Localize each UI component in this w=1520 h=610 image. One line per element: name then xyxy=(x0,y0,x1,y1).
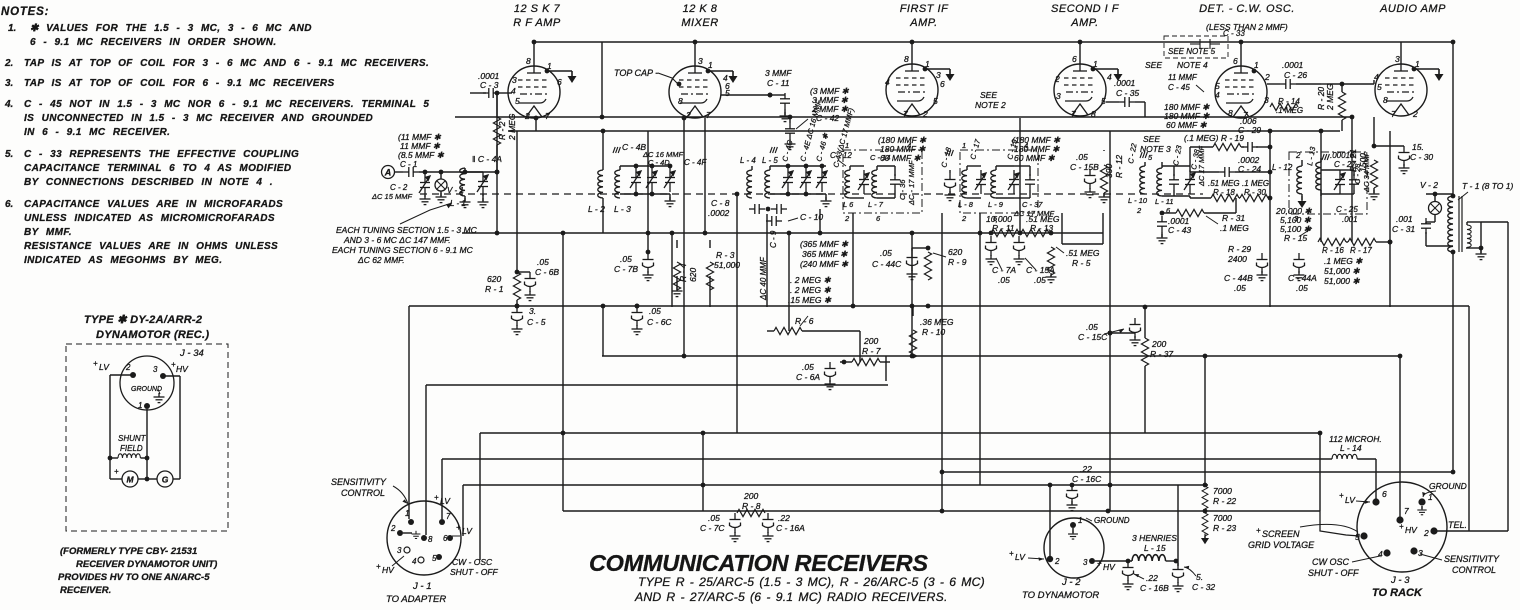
coil L-3 with trimmers C-4B C-4D C-4F xyxy=(614,164,676,214)
svg-text:51,000 ✱: 51,000 ✱ xyxy=(1324,276,1360,286)
svg-text:C - 15C: C - 15C xyxy=(1078,332,1108,342)
svg-text:(LESS THAN 2 MMF): (LESS THAN 2 MMF) xyxy=(1206,22,1288,32)
capacitor C-31 .001 xyxy=(1392,214,1453,246)
wire vertical x1205 J-2 column xyxy=(1204,356,1206,485)
capacitor C-38 variable xyxy=(1162,146,1206,196)
dynamotor enclosure dashed xyxy=(66,344,228,531)
svg-text:NOTE 4: NOTE 4 xyxy=(1177,60,1208,70)
capacitor C-8 .0002 xyxy=(708,198,765,218)
svg-text:M: M xyxy=(126,475,134,485)
capacitor C-42 symbol xyxy=(785,115,809,150)
value note C-42 block xyxy=(810,86,849,123)
wire vertical x705 mixer drop xyxy=(704,118,706,233)
capacitor C-44C .05 xyxy=(872,246,930,280)
svg-text:+: + xyxy=(1256,526,1261,535)
J-1 +LV labels xyxy=(434,493,473,536)
svg-text:L - 10: L - 10 xyxy=(1128,196,1148,205)
capacitor C-14 variable xyxy=(850,153,890,198)
svg-text:1: 1 xyxy=(962,141,966,150)
wire horizontal rail y385 xyxy=(426,384,888,386)
resistor R-8 200 xyxy=(737,491,765,517)
svg-text:8: 8 xyxy=(904,54,909,64)
svg-text:LV: LV xyxy=(462,526,473,536)
neon V-1 xyxy=(435,170,464,203)
pin 1 ground of tube at x=534 xyxy=(545,69,577,83)
capacitor C-1 xyxy=(400,160,497,177)
svg-text:C - 36: C - 36 xyxy=(898,179,907,200)
svg-text:4: 4 xyxy=(412,557,417,566)
wire vertical x1110 xyxy=(1109,131,1111,511)
capacitor C-30 15 xyxy=(1374,142,1433,174)
resistor R-10 .36MEG xyxy=(909,307,954,358)
svg-text:DYNAMOTOR (REC.): DYNAMOTOR (REC.) xyxy=(96,329,209,341)
svg-text:ΔC 17 MMF: ΔC 17 MMF xyxy=(1197,146,1206,187)
svg-text:.1 MEG: .1 MEG xyxy=(1220,223,1249,233)
wire vertical x1390 xyxy=(1389,131,1391,307)
stage title 12K8 MIXER xyxy=(681,3,718,29)
svg-text:200: 200 xyxy=(1151,339,1166,349)
svg-text:L - 15: L - 15 xyxy=(1144,543,1166,553)
resistor R-17 xyxy=(1346,238,1392,255)
svg-text:3: 3 xyxy=(1395,54,1400,64)
svg-text:.0002: .0002 xyxy=(708,208,730,218)
capacitor C-36 xyxy=(877,160,916,206)
svg-text:4: 4 xyxy=(1378,549,1383,559)
svg-text:5: 5 xyxy=(515,96,520,106)
svg-text:.36 MEG: .36 MEG xyxy=(920,317,954,327)
svg-text:RECEIVER.: RECEIVER. xyxy=(60,585,111,596)
pin 1 ground of tube at x=912 xyxy=(923,67,955,81)
svg-text:3: 3 xyxy=(1418,548,1423,558)
svg-text:SECOND I F: SECOND I F xyxy=(1051,3,1120,15)
svg-text:AND R - 27/ARC-5 (6 - 9.1 MC): AND R - 27/ARC-5 (6 - 9.1 MC) RADIO RECE… xyxy=(634,590,948,604)
svg-text:SEE: SEE xyxy=(980,90,997,100)
J-2 pin 2 +LV xyxy=(1009,549,1060,566)
capacitor C-6B .05 xyxy=(517,257,559,301)
capacitor C-11 3MMF xyxy=(721,68,792,122)
svg-text:3.: 3. xyxy=(5,78,13,89)
svg-text:.05: .05 xyxy=(880,248,892,258)
svg-text:J - 3: J - 3 xyxy=(1390,575,1410,586)
wire horizontal rail y485 xyxy=(463,484,1208,486)
wire vertical x426 to J-1 pin 8 xyxy=(425,385,427,535)
resistor R-7 200 xyxy=(840,336,890,366)
svg-text:C - 7A: C - 7A xyxy=(992,265,1016,275)
svg-text:ΔC 15 MMF: ΔC 15 MMF xyxy=(371,192,412,201)
resistor R-6 xyxy=(767,316,860,335)
wire RF grid row xyxy=(508,92,512,94)
svg-text:C - 3: C - 3 xyxy=(480,80,499,90)
pin 1 ground of tube at x=1080 xyxy=(1091,67,1123,81)
svg-text:6: 6 xyxy=(1382,489,1387,499)
svg-text:C - 12: C - 12 xyxy=(830,151,852,160)
svg-text:.05: .05 xyxy=(1296,283,1308,293)
resistor R-2 2 MEG xyxy=(493,93,517,235)
value note 20,000 bank xyxy=(1275,206,1312,243)
svg-text:2: 2 xyxy=(961,214,967,223)
capacitor C-6A .05 xyxy=(796,362,844,390)
svg-text:HV: HV xyxy=(176,364,189,374)
svg-text:TO ADAPTER: TO ADAPTER xyxy=(386,594,446,605)
wire vertical x563 long drop xyxy=(562,233,564,511)
svg-text:.51 MEG: .51 MEG xyxy=(1066,248,1100,258)
capacitor C-15C .05 xyxy=(1078,318,1141,346)
pin 1 ground of tube at x=695 xyxy=(706,69,738,83)
wire vertical x1400 J-3 +HV drop xyxy=(1399,356,1401,517)
svg-text:C - 37: C - 37 xyxy=(1022,200,1043,209)
svg-text:CONTROL: CONTROL xyxy=(1452,565,1496,575)
svg-text:(365 MMF ✱: (365 MMF ✱ xyxy=(800,239,849,249)
svg-text:365 MMF ✱: 365 MMF ✱ xyxy=(802,249,848,259)
generator G xyxy=(147,471,180,487)
svg-text:.05: .05 xyxy=(1034,275,1046,285)
svg-text:4: 4 xyxy=(1024,141,1028,150)
svg-text:1.: 1. xyxy=(8,23,16,34)
capacitor C-29 .006 xyxy=(1238,116,1261,135)
svg-text:LV: LV xyxy=(99,362,110,372)
wire horizontal rail y472 xyxy=(942,471,1453,473)
wire vertical x860 xyxy=(859,331,861,362)
svg-text:R - 29: R - 29 xyxy=(1228,244,1251,254)
resistor R-4 620 xyxy=(672,240,699,297)
svg-text:(.1 MEG) R - 19: (.1 MEG) R - 19 xyxy=(1184,133,1244,143)
svg-text:C - 4D: C - 4D xyxy=(648,158,670,167)
vacuum tube V-8 audio amplifier xyxy=(1374,54,1427,119)
coil L-6 xyxy=(843,166,854,209)
svg-text:L - 5: L - 5 xyxy=(762,156,778,165)
svg-text:1: 1 xyxy=(405,509,409,518)
svg-text:60 MMF ✱: 60 MMF ✱ xyxy=(880,153,921,163)
svg-text:TO RACK: TO RACK xyxy=(1372,587,1423,599)
svg-text:C - 11: C - 11 xyxy=(767,78,790,88)
svg-text:2: 2 xyxy=(125,363,131,372)
svg-text:SEE: SEE xyxy=(1143,134,1160,144)
svg-text:4: 4 xyxy=(1374,72,1379,82)
stage title AUDIO AMP xyxy=(1379,3,1446,15)
svg-text:3.: 3. xyxy=(529,306,536,316)
coil L-4 xyxy=(740,156,756,198)
svg-text:RESISTANCE VALUES ARE IN O: RESISTANCE VALUES ARE IN OHMS UNLESS xyxy=(24,241,278,252)
svg-text:R - 20: R - 20 xyxy=(1316,87,1326,110)
wire vertical x1178 C-32 column xyxy=(1177,485,1179,566)
svg-text:V - 2: V - 2 xyxy=(1420,180,1438,190)
coil L-5 xyxy=(762,156,778,198)
svg-text:620: 620 xyxy=(688,268,698,282)
svg-text:LV: LV xyxy=(440,496,451,506)
resistor R-13 .51MEG xyxy=(1018,214,1060,237)
svg-text:C - 33: C - 33 xyxy=(1223,29,1245,38)
value note 11 MMF / 8.5 MMF xyxy=(398,132,445,160)
J-34 pin 1 xyxy=(138,401,150,410)
capacitor C-16C .22 xyxy=(1067,464,1103,511)
svg-text:1: 1 xyxy=(1254,60,1259,70)
svg-text:GROUND: GROUND xyxy=(131,386,162,393)
svg-text:3 HENRIES: 3 HENRIES xyxy=(1132,533,1177,543)
capacitor C-26 .0001 xyxy=(1267,60,1321,89)
notes text xyxy=(4,23,429,266)
resistor R-29 2400 xyxy=(1227,244,1251,264)
svg-text:ΔC 40 MMF: ΔC 40 MMF xyxy=(759,256,768,301)
value note 180MMF bank det xyxy=(1164,102,1210,130)
svg-text:IN 6 - 9.1 MC RECEIVER.: IN 6 - 9.1 MC RECEIVER. xyxy=(24,127,170,138)
svg-text:R - 11: R - 11 xyxy=(992,223,1015,233)
svg-text:L - 11: L - 11 xyxy=(1155,197,1174,206)
wire vertical x536 RF cathode drop xyxy=(535,118,537,131)
svg-text:R - 14: R - 14 xyxy=(1278,97,1300,106)
wire top B+ rail xyxy=(534,42,1453,196)
svg-text:GROUND: GROUND xyxy=(1094,516,1130,525)
dynamotor wiring xyxy=(110,375,180,479)
svg-text:.05: .05 xyxy=(998,275,1010,285)
svg-text:HV: HV xyxy=(382,565,395,575)
resistor R-37 200 xyxy=(1141,306,1173,433)
svg-text:5: 5 xyxy=(1355,532,1360,542)
J-2 designation xyxy=(1022,577,1099,601)
svg-text:7000: 7000 xyxy=(1213,486,1232,496)
svg-text:6: 6 xyxy=(557,77,562,87)
stage title DET.-C.W. OSC. xyxy=(1199,3,1295,15)
label R-15 leader xyxy=(1300,228,1312,236)
wire dashed tuning-gang line xyxy=(420,193,1203,195)
svg-text:TEL.: TEL. xyxy=(1448,520,1467,530)
vacuum tube V-6 second IF amplifier xyxy=(1054,54,1112,119)
capacitor C-3 xyxy=(470,71,508,98)
svg-text:6 - 9.1 MC RECEIVERS IN ORD: 6 - 9.1 MC RECEIVERS IN ORDER SHOWN. xyxy=(30,37,277,48)
svg-text:60 MMF ✱: 60 MMF ✱ xyxy=(1166,120,1207,130)
vacuum tube V-4 12K8 mixer xyxy=(669,56,730,120)
svg-text:1500: 1500 xyxy=(1358,153,1368,172)
svg-text:C - 15B: C - 15B xyxy=(1070,162,1099,172)
resistor R-16 xyxy=(1318,238,1346,255)
svg-text:SCREEN: SCREEN xyxy=(1262,529,1300,539)
resistor R-5 .51 MEG xyxy=(1046,233,1100,283)
label C-4D xyxy=(642,150,683,167)
svg-text:C - 9: C - 9 xyxy=(769,230,778,248)
svg-text:R - 4: R - 4 xyxy=(678,263,688,282)
connector J-2 xyxy=(1044,518,1104,578)
svg-text:+: + xyxy=(456,523,461,532)
svg-text:+: + xyxy=(434,493,439,502)
svg-text:2: 2 xyxy=(1136,206,1142,215)
svg-text:390: 390 xyxy=(1104,164,1114,178)
wire vertical x1020 xyxy=(1019,118,1021,233)
svg-text:2 MEG: 2 MEG xyxy=(507,113,517,141)
wire vertical x410 to J-1 pin 1 xyxy=(408,306,410,519)
J-1 pin 5 xyxy=(432,554,442,563)
capacitor C-7B .05 xyxy=(614,250,654,281)
svg-text:R - 17: R - 17 xyxy=(1350,246,1372,255)
svg-text:51,000 ✱: 51,000 ✱ xyxy=(1324,266,1360,276)
svg-text:TYPE R - 25/ARC-5 (1.5 - 3 MC: TYPE R - 25/ARC-5 (1.5 - 3 MC), R - 26/A… xyxy=(638,575,985,589)
J-3 pin 2 TEL xyxy=(1423,520,1508,538)
svg-text:200: 200 xyxy=(863,336,878,346)
svg-text:PROVIDES HV TO ONE AN/ARC-: PROVIDES HV TO ONE AN/ARC-5 xyxy=(58,572,210,583)
svg-text:3: 3 xyxy=(1083,558,1088,567)
svg-text:1: 1 xyxy=(1078,516,1082,525)
svg-text:2400: 2400 xyxy=(1227,254,1247,264)
J-1 designation xyxy=(386,581,446,605)
capacitor C-18 xyxy=(939,146,955,201)
svg-text:4: 4 xyxy=(511,86,516,96)
svg-text:15.: 15. xyxy=(1412,142,1424,152)
svg-text:R - 18: R - 18 xyxy=(1213,188,1235,197)
resistor R-31 .1MEG xyxy=(1160,198,1250,233)
J-3 pin 1 ground xyxy=(1417,481,1466,515)
svg-text:TO DYNAMOTOR: TO DYNAMOTOR xyxy=(1022,590,1099,601)
svg-text:7: 7 xyxy=(1404,506,1409,516)
wire horizontal rail y117 (screen bus) xyxy=(455,116,1352,118)
svg-text:C - 35: C - 35 xyxy=(1116,88,1139,98)
svg-text:C - 32: C - 32 xyxy=(1192,582,1215,592)
svg-text:6: 6 xyxy=(443,534,448,543)
svg-text:‖ C - 4A: ‖ C - 4A xyxy=(472,154,502,164)
value note 365MMF bank xyxy=(800,239,849,269)
svg-text:L - 14: L - 14 xyxy=(1340,443,1362,453)
svg-text:2 MEG: 2 MEG xyxy=(1325,83,1335,111)
svg-text:C - 44A: C - 44A xyxy=(1288,273,1317,283)
svg-text:3: 3 xyxy=(512,75,517,85)
J-34 pin 3 +HV xyxy=(153,360,189,379)
resistor R-21 1500 xyxy=(1348,117,1380,200)
wire vertical x684 xyxy=(683,118,685,356)
svg-text:2: 2 xyxy=(1264,72,1270,82)
svg-text:EACH TUNING SECTION 1.5 - 3: EACH TUNING SECTION 1.5 - 3 MC xyxy=(336,225,478,235)
svg-text:3: 3 xyxy=(397,546,402,555)
resistor R-9 620 xyxy=(924,247,966,280)
svg-text:.22: .22 xyxy=(1080,464,1092,474)
svg-text:C - 43: C - 43 xyxy=(1168,225,1191,235)
capacitor C-25 .001 xyxy=(1336,194,1358,224)
J-3 pin 3 sensitivity xyxy=(1410,547,1500,575)
dynamotor title xyxy=(84,314,209,341)
svg-text:6: 6 xyxy=(1233,56,1238,66)
svg-text:4: 4 xyxy=(907,141,911,150)
capacitor C-19 variable xyxy=(996,138,1019,198)
wire vertical x1321 xyxy=(1320,131,1322,242)
capacitor C-7C .05 xyxy=(700,513,741,542)
resistor R-14 .1MEG xyxy=(1270,97,1303,115)
svg-text:C - 7B: C - 7B xyxy=(614,264,638,274)
wire vertical x789 xyxy=(788,233,790,331)
svg-text:. 2 MEG ✱: . 2 MEG ✱ xyxy=(790,275,832,285)
value note R-16 R-17 xyxy=(1324,256,1363,286)
svg-text:ΔC - 17 MMF: ΔC - 17 MMF xyxy=(907,160,916,206)
svg-text:.51 MEG: .51 MEG xyxy=(1208,179,1240,188)
wire vertical x1453 output rail xyxy=(1452,252,1454,472)
svg-text:C - 4F: C - 4F xyxy=(684,158,707,167)
wire horizontal rail y511 xyxy=(563,510,1320,512)
svg-text:C - 7C: C - 7C xyxy=(700,523,725,533)
svg-text:C - 45: C - 45 xyxy=(1168,83,1190,92)
svg-text:FIRST IF: FIRST IF xyxy=(900,3,949,15)
svg-text:J - 34: J - 34 xyxy=(179,348,204,359)
capacitor C-28 xyxy=(1340,152,1371,194)
wire horizontal rail y307 (B+ bus) xyxy=(409,305,1469,307)
svg-text:5: 5 xyxy=(432,554,437,563)
resistor R-3 51,000 xyxy=(706,240,740,307)
subtitle line 1 xyxy=(638,575,985,589)
svg-text:GROUND: GROUND xyxy=(1429,481,1467,491)
svg-text:2: 2 xyxy=(1423,528,1429,538)
svg-text:R - 21: R - 21 xyxy=(1348,149,1358,172)
capacitor C-24 .0002 xyxy=(1190,155,1270,177)
svg-text:5.: 5. xyxy=(5,149,13,160)
shunt field coil xyxy=(108,434,150,460)
wire vertical x737 xyxy=(736,194,738,433)
choke L-14 112 MICROH xyxy=(1318,431,1382,499)
svg-text:.15 MEG ✱: .15 MEG ✱ xyxy=(788,295,832,305)
J-1 pin 4 xyxy=(412,557,424,566)
svg-text:620: 620 xyxy=(948,247,962,257)
capacitor C-15A .05 xyxy=(1014,236,1056,285)
svg-text:.1 MEG ✱: .1 MEG ✱ xyxy=(1324,256,1363,266)
svg-text:R - 5: R - 5 xyxy=(1072,258,1091,268)
coil L-11 xyxy=(1155,162,1174,206)
svg-text:MIXER: MIXER xyxy=(681,17,718,29)
svg-text:5: 5 xyxy=(725,88,730,98)
slug tuning tick marks xyxy=(613,147,1329,160)
wire vertical x672 xyxy=(671,233,673,307)
svg-text:+: + xyxy=(1339,491,1344,500)
svg-text:12 S K 7: 12 S K 7 xyxy=(514,3,561,15)
svg-text:.05: .05 xyxy=(1076,152,1088,162)
wire vertical x603 screen drop xyxy=(602,306,604,356)
svg-text:12 K 8: 12 K 8 xyxy=(683,3,718,15)
IF transformer pin digits xyxy=(844,141,1299,223)
svg-text:2: 2 xyxy=(844,214,850,223)
J-1 +HV label xyxy=(376,556,404,575)
J-34 ground xyxy=(131,386,165,403)
svg-text:EACH TUNING SECTION 6 - 9.1: EACH TUNING SECTION 6 - 9.1 MC xyxy=(332,245,474,255)
svg-text:51,000: 51,000 xyxy=(714,260,740,270)
capacitor C-45 11MMF xyxy=(1168,73,1204,92)
capacitor C-33 dashed xyxy=(1164,29,1245,58)
resistor R-22 7000 xyxy=(1202,483,1236,511)
svg-text:L - 8: L - 8 xyxy=(958,200,974,209)
svg-text:BY CONNECTIONS DESCRIBED IN: BY CONNECTIONS DESCRIBED IN NOTE 4 . xyxy=(24,177,273,188)
svg-text:R - 15: R - 15 xyxy=(1284,233,1307,243)
motor M xyxy=(110,467,149,487)
svg-text:C - 6A: C - 6A xyxy=(796,372,820,382)
J-1 CW-OSC SHUT-OFF label xyxy=(450,557,498,577)
resistor R-1 620 xyxy=(485,270,521,306)
svg-text:7: 7 xyxy=(446,512,451,521)
svg-text:.05: .05 xyxy=(1086,322,1098,332)
svg-text:AMP.: AMP. xyxy=(1070,17,1098,29)
label SEE NOTE 2 xyxy=(975,90,1006,110)
capacitor C-6C .05 xyxy=(632,304,673,335)
svg-text:CONTROL: CONTROL xyxy=(341,488,385,498)
svg-text:AND 3 - 6 MC ΔC 147 MMF.: AND 3 - 6 MC ΔC 147 MMF. xyxy=(343,235,451,245)
wire J-2 +HV to filter xyxy=(1095,559,1132,564)
svg-text:C - 6C: C - 6C xyxy=(647,317,672,327)
capacitor C-2 variable xyxy=(371,170,431,205)
svg-text:2: 2 xyxy=(524,111,530,121)
svg-text:5: 5 xyxy=(1101,96,1106,106)
svg-text:TAP IS AT TOP OF COIL FO: TAP IS AT TOP OF COIL FOR 6 - 9.1 MC REC… xyxy=(24,78,335,89)
svg-text:COMMUNICATION RECEIVERS: COMMUNICATION RECEIVERS xyxy=(589,550,929,576)
wire vertical x463 to J-1 pin 6 xyxy=(462,485,464,536)
vacuum tube V-7 detector / CW oscillator xyxy=(1215,56,1270,120)
J-3 pin 4 CW OSC SHUT-OFF xyxy=(1308,549,1391,578)
capacitor C-7A .05 xyxy=(986,236,1017,285)
capacitor C-35 .0001 xyxy=(1106,78,1145,117)
svg-text:60 MMF ✱: 60 MMF ✱ xyxy=(1014,153,1055,163)
svg-text:R - 2: R - 2 xyxy=(497,121,507,140)
capacitor C-16B .22 xyxy=(1123,561,1170,593)
svg-text:R - 30: R - 30 xyxy=(1244,188,1266,197)
svg-text:C - 30: C - 30 xyxy=(1410,152,1433,162)
